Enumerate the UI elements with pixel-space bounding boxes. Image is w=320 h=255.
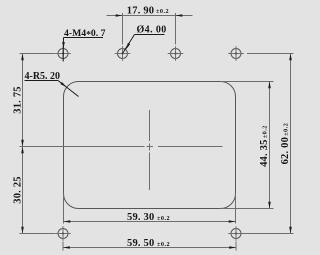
label Ø4.00 with leader [123, 25, 167, 54]
dimension 17.90 top [107, 6, 193, 45]
svg-text:62. 00±0.2: 62. 00±0.2 [280, 123, 291, 165]
vertical centerline [149, 110, 151, 190]
hole C6 bottom-right [228, 226, 244, 241]
svg-text:Ø4. 00: Ø4. 00 [137, 25, 167, 36]
svg-text:44. 35±0.2: 44. 35±0.2 [259, 125, 270, 167]
left dimension 31.75 / 30.25 [13, 54, 56, 234]
hole C3 top mid-right [168, 46, 184, 61]
hole C1 top-left [55, 46, 71, 61]
svg-text:±0.2: ±0.2 [157, 241, 170, 248]
dimension 62.00 hole row spacing [243, 54, 294, 234]
dimension 59.30 cutout width [64, 194, 236, 224]
cutout outline (rounded rectangle) [64, 82, 236, 209]
horizontal centerline [20, 146, 223, 148]
dimension 59.50 hole spacing [63, 238, 236, 251]
svg-text:±0.2: ±0.2 [156, 8, 169, 15]
svg-text:±0.2: ±0.2 [157, 215, 170, 222]
svg-text:59. 50: 59. 50 [127, 238, 154, 249]
hole C5 bottom-left [55, 226, 71, 241]
svg-text:31. 75: 31. 75 [13, 86, 24, 113]
svg-text:59. 30: 59. 30 [127, 212, 154, 223]
label 4-M4*0.7 with leader [62, 28, 105, 62]
svg-text:17. 90: 17. 90 [127, 6, 154, 17]
svg-text:4-M4*0. 7: 4-M4*0. 7 [64, 28, 106, 41]
hole C2 top mid-left [115, 46, 131, 61]
hole C4 top-right [228, 46, 244, 61]
label 4-R5.20 with leader [25, 71, 79, 97]
svg-text:30. 25: 30. 25 [13, 176, 24, 203]
dimension 44.35 cutout height [221, 82, 274, 209]
